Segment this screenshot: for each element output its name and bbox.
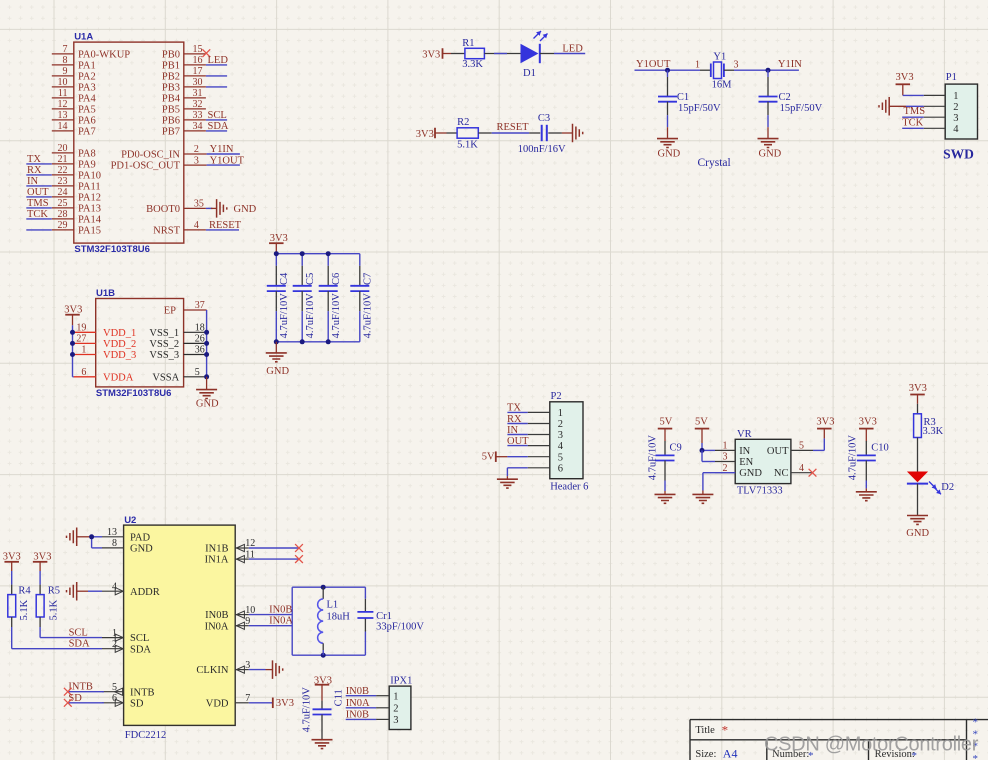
svg-text:Cr1: Cr1 [376,611,392,622]
wire TX at P2 [507,411,527,413]
pin 7 PA0-WKUP [52,44,130,60]
svg-text:PA2: PA2 [78,72,96,83]
svg-text:CLKIN: CLKIN [196,665,228,676]
resistor R5 [36,571,44,638]
wire OUT to 3V3 [813,438,824,450]
svg-text:30: 30 [193,77,203,88]
svg-text:Y1OUT: Y1OUT [210,155,245,166]
junction at VR IN [700,448,705,453]
designator L1 [327,600,339,611]
svg-text:18: 18 [195,323,205,334]
junction VSS_2 [204,341,209,346]
pin 3 CLKIN [196,660,250,676]
value FDC2212 [125,730,166,741]
svg-text:PB2: PB2 [162,72,180,83]
revision star [912,750,918,760]
svg-text:1: 1 [558,408,563,419]
ground at C2 [758,127,782,159]
wire TX [26,163,52,165]
svg-text:*: * [973,717,979,729]
pin 9 PA2 [52,66,96,82]
value 33pF/100V [376,622,424,633]
resistor R3 [914,404,922,472]
svg-text:16: 16 [193,55,203,66]
junction VDD_1 [70,330,75,335]
wire 3V3 rail U1B [73,325,74,377]
designator R5 [48,585,60,596]
wire TMS [902,116,924,118]
net label IN0A [269,616,293,627]
power port 5V at VR [695,417,710,443]
pin 19 VDD_1 [74,323,137,339]
pin 5 OUT [767,441,813,457]
capacitor Cr1 [357,612,373,618]
power port 3V3 at R2 [416,128,447,140]
pin 13 PAD [102,527,150,543]
svg-text:PA9: PA9 [78,160,96,171]
svg-text:PA3: PA3 [78,83,96,94]
capacitor C7 [350,254,369,342]
junction L1 bottom [321,653,326,658]
designator U1A [74,32,93,43]
wire RX [26,174,52,176]
junction at C1 [665,68,670,73]
svg-text:STM32F103T8U6: STM32F103T8U6 [96,388,172,399]
svg-text:2: 2 [393,703,398,714]
svg-text:SD: SD [130,698,144,709]
value 18uH [327,612,351,623]
designator C11 [333,689,344,706]
capacitor C11 [313,701,332,740]
connector P2 body [550,402,583,479]
designator P2 [551,391,562,402]
svg-text:25: 25 [58,198,68,209]
wire VDD [249,702,273,704]
led D1 [521,31,555,63]
pin 6 VDDA [74,367,134,383]
svg-text:16M: 16M [712,79,733,90]
svg-text:IN0A: IN0A [269,616,293,627]
designator C7 [363,273,374,285]
pin 20 PA8 [52,143,96,159]
svg-text:3: 3 [558,430,563,441]
svg-text:VSS_2: VSS_2 [149,339,179,350]
svg-text:18uH: 18uH [327,612,351,623]
capacitor C4 [267,254,286,342]
svg-text:26: 26 [195,334,205,345]
svg-text:*: * [722,723,729,738]
svg-text:OUT: OUT [27,187,49,198]
pin 11 PA4 [52,88,97,104]
power port 3V3 at C4 [269,233,288,254]
pin 14 PA7 [52,121,96,137]
svg-text:SDA: SDA [69,639,90,650]
svg-text:5: 5 [195,367,200,378]
svg-text:IN0B: IN0B [346,686,369,697]
crystal Y1 [695,59,739,78]
svg-text:Crystal: Crystal [698,157,731,169]
wire RESET net [492,132,530,134]
svg-text:100nF/16V: 100nF/16V [518,144,566,155]
net label TMS [27,198,49,209]
net label INTB [68,682,93,693]
designator U2 [124,515,136,526]
svg-text:RESET: RESET [209,220,242,231]
pin 29 PA15 [52,220,101,236]
svg-text:4: 4 [558,441,564,452]
wire 3V3 rail caps [276,253,360,255]
ground at VR [692,491,713,504]
svg-text:PA14: PA14 [78,215,102,226]
svg-text:PB0: PB0 [162,50,180,61]
svg-text:3.3K: 3.3K [923,426,944,437]
svg-text:7: 7 [63,44,68,55]
svg-text:IN0B: IN0B [346,710,369,721]
net label IN0B [269,605,292,616]
svg-text:R5: R5 [48,585,60,596]
net label SD [68,693,82,704]
pin 10 IN0B [205,605,255,621]
pin 26 VSS_2 [149,334,206,350]
pin 4 NRST [153,220,206,236]
svg-text:INTB: INTB [68,682,93,693]
value 16M [712,79,733,90]
svg-text:1: 1 [723,441,728,452]
wire GND of VR [703,473,735,491]
ground at PAD [67,528,92,547]
connector P1 body [945,84,977,139]
svg-text:VDD_3: VDD_3 [103,350,136,361]
wire INTB [68,691,104,693]
svg-text:R2: R2 [457,117,469,128]
connector IPX1 body [389,686,411,729]
power port 3V3 at R1 [422,48,451,60]
wire pin30 [206,86,227,88]
svg-text:PA1: PA1 [78,61,96,72]
designator C9 [670,443,682,454]
svg-text:Title: Title [695,725,715,736]
pin 18 VSS_1 [149,323,206,339]
ground at P2 [497,476,518,488]
title star [722,723,729,738]
wire SD [68,702,104,704]
svg-text:IN: IN [739,446,750,457]
designator C6 [331,273,342,285]
svg-text:Size:: Size: [695,749,716,760]
power port 3V3 at C10 [859,417,877,441]
svg-text:22: 22 [58,165,68,176]
svg-text:TMS: TMS [904,106,926,117]
junction top rail [274,251,279,256]
capacitor C2 [759,70,778,127]
resistor R1 [451,48,521,58]
net label TMS [904,106,926,117]
wire LED [554,53,585,55]
svg-text:4: 4 [194,220,199,231]
wire IN0B [249,614,292,616]
inductor L1 [318,587,324,655]
wire VSS rail U1B [206,310,208,377]
pin 6 of P2 [528,463,563,474]
wire Y1OUT [207,164,240,166]
pin 1 VDD_3 [74,345,137,361]
svg-text:34: 34 [193,121,203,132]
pin 35 BOOT0 [146,199,206,215]
svg-text:SCL: SCL [69,628,88,639]
svg-text:5V: 5V [482,451,495,462]
svg-text:D1: D1 [523,68,536,79]
value 15pF/50V [678,103,721,114]
svg-text:P1: P1 [946,72,957,83]
net label RX [507,414,522,425]
pin 3 PD1-OSC_OUT [111,155,207,171]
junction bottom rail [326,339,331,344]
net label OUT [507,436,529,447]
pin 31 PB4 [162,88,206,104]
junction VDD_3 [70,352,75,357]
no-connect NC [809,469,817,477]
pin 11 IN1A [205,549,255,565]
net label IN0A [346,698,370,709]
pin 28 PA14 [52,209,102,225]
pin 3 of P2 [528,430,563,441]
svg-text:32: 32 [193,99,203,110]
power port 5V at P2 [482,451,508,462]
ground at C9 [655,491,676,503]
junction bottom rail [274,339,279,344]
pin 27 VDD_2 [74,334,137,350]
wire P1 pin2 [906,105,924,107]
wire OUT [26,196,52,198]
ground at C11 [312,740,333,749]
svg-text:INTB: INTB [130,687,155,698]
pin 2 of IPX1 [376,703,398,714]
pin 5 VSSA [152,367,206,383]
wire GND rail caps [276,341,360,343]
regulator VR body [735,439,791,483]
power port 3V3 at R3 [909,383,927,404]
value 3.3K [923,426,944,437]
net label Y1OUT [210,155,245,166]
value 5.1K R4 [19,599,30,620]
svg-text:STM32F103T8U6: STM32F103T8U6 [74,244,150,255]
wire P1 pin1 [903,94,924,96]
svg-text:C6: C6 [331,273,342,285]
net label TX [507,403,521,414]
wire IN at P2 [507,434,527,436]
svg-text:1: 1 [393,691,398,702]
svg-text:13: 13 [58,110,68,121]
svg-text:11: 11 [58,88,68,99]
pin 7 VDD [206,693,251,709]
ground at C10 [856,488,877,500]
text Title [695,725,715,736]
wire RESET [206,229,239,231]
pin 22 PA10 [52,165,101,181]
ic U2 FDC2212 body [124,525,236,725]
svg-text:C4: C4 [279,272,290,285]
pin 25 PA13 [52,198,101,214]
svg-text:U1A: U1A [74,32,93,43]
capacitor C10 [857,441,876,488]
pin 3 EN [715,452,754,468]
svg-text:IN0B: IN0B [269,605,292,616]
svg-text:17: 17 [193,66,203,77]
net label SCL [69,628,88,639]
power port 3V3 at R5 [33,551,52,571]
svg-text:10: 10 [58,77,68,88]
svg-text:3: 3 [393,715,398,726]
wire 5V to IN [702,443,715,450]
ground at U1B [196,377,219,410]
svg-text:4.7uF/10V: 4.7uF/10V [847,435,858,481]
svg-text:VDD: VDD [206,698,229,709]
svg-text:GND: GND [658,148,681,159]
wire pin34 [206,130,227,132]
svg-text:3V3: 3V3 [416,129,434,140]
svg-text:35: 35 [194,199,204,210]
pin 36 VSS_3 [149,345,206,361]
pin 24 PA12 [52,187,101,203]
title block frame [690,720,988,760]
svg-text:IN: IN [27,176,38,187]
wire ADDR [88,590,102,592]
svg-text:19: 19 [76,323,86,334]
capacitor C5 [293,254,312,342]
border stars [973,717,979,760]
wire pin6 to gnd [507,468,527,476]
pin 23 PA11 [52,176,101,192]
junction top rail [326,251,331,256]
svg-text:PA7: PA7 [78,127,96,138]
pin 10 PA3 [52,77,96,93]
svg-text:SDA: SDA [208,121,229,132]
wire TMS [26,207,52,209]
svg-text:D2: D2 [941,482,954,493]
net label SDA [69,639,90,650]
svg-text:PA4: PA4 [78,94,96,105]
capacitor C1 [658,70,677,127]
value 3.3K [462,59,483,70]
svg-text:5.1K: 5.1K [19,599,30,620]
pin 6 SD [102,693,144,709]
designator C3 [538,113,550,124]
svg-text:24: 24 [58,187,68,198]
svg-text:GND: GND [266,366,289,377]
wire OUT at P2 [507,445,527,447]
pin 1 IN [715,441,751,457]
pin 30 PB3 [162,77,206,93]
value 5.1K [457,140,478,151]
power port 5V at C9 [658,417,673,441]
svg-text:IN: IN [507,425,518,436]
power port 3V3 at VR out [816,417,834,439]
svg-text:6: 6 [112,693,117,704]
resistor R2 [447,128,492,138]
wire R1 to D1 [494,53,507,55]
pin 13 PA6 [52,110,96,126]
svg-text:PB6: PB6 [162,116,180,127]
svg-text:8: 8 [112,538,117,549]
svg-text:TX: TX [507,403,521,414]
svg-text:L1: L1 [327,600,339,611]
junction top rail [300,251,305,256]
svg-text:PA0-WKUP: PA0-WKUP [78,50,130,61]
wire Y1IN net [734,69,799,71]
svg-text:TCK: TCK [27,209,48,220]
svg-text:IN0A: IN0A [346,698,370,709]
designator Y1 [713,52,726,63]
pin 17 PB2 [162,66,206,82]
svg-text:VDD_1: VDD_1 [103,328,136,339]
svg-text:4.7uF/10V: 4.7uF/10V [331,293,342,339]
svg-text:GND: GND [130,544,153,555]
svg-text:GND: GND [739,468,762,479]
svg-text:SD: SD [68,693,82,704]
net label SCL [208,110,227,121]
svg-text:OUT: OUT [507,436,529,447]
value STM32F103T8U6 [74,244,150,255]
junction VSS_3 [204,352,209,357]
wire IN1B [249,547,299,549]
svg-text:C5: C5 [305,273,316,285]
value 15pF/50V [780,103,823,114]
pin 1 of P2 [528,408,563,419]
ic U1A STM32F103T8U6 body [74,42,184,243]
svg-text:3V3: 3V3 [33,551,51,562]
pin 1 of IPX1 [376,691,398,702]
designator R4 [18,585,31,596]
svg-text:PD1-OSC_OUT: PD1-OSC_OUT [111,161,181,172]
svg-text:13: 13 [107,527,117,538]
pin 8 GND [102,538,153,554]
net label IN [27,176,38,187]
svg-text:SCL: SCL [130,633,149,644]
svg-text:PB1: PB1 [162,61,180,72]
svg-text:4.7uF/10V: 4.7uF/10V [305,293,316,339]
svg-text:OUT: OUT [767,446,789,457]
svg-text:GND: GND [759,148,782,159]
value TLV71333 [737,485,783,496]
wire IN0A to IPX1 [346,707,376,709]
pin 37 EP [164,300,207,316]
svg-text:5V: 5V [695,417,708,428]
wire IN0B to IPX1 [346,695,376,697]
pin 1 of P1 [924,91,959,102]
svg-text:RX: RX [507,414,522,425]
value 4.7uF/10V [363,293,374,339]
svg-text:NC: NC [774,468,789,479]
svg-text:4.7uF/10V: 4.7uF/10V [279,293,290,339]
svg-text:23: 23 [58,176,68,187]
svg-text:C3: C3 [538,113,550,124]
no-connect SD [64,699,72,707]
svg-text:TLV71333: TLV71333 [737,485,783,496]
svg-text:C1: C1 [677,92,689,103]
value 4.7uF/10V [647,435,658,481]
designator VR [737,429,752,440]
designator C10 [871,443,889,454]
designator D2 [941,482,954,493]
svg-text:5.1K: 5.1K [457,140,478,151]
wire TCK [902,127,924,129]
svg-text:9: 9 [63,66,68,77]
svg-text:FDC2212: FDC2212 [125,730,166,741]
svg-text:Y1IN: Y1IN [210,144,234,155]
pin 2 SDA [102,639,151,655]
wire pin29 [26,229,52,231]
svg-text:Y1: Y1 [713,52,726,63]
